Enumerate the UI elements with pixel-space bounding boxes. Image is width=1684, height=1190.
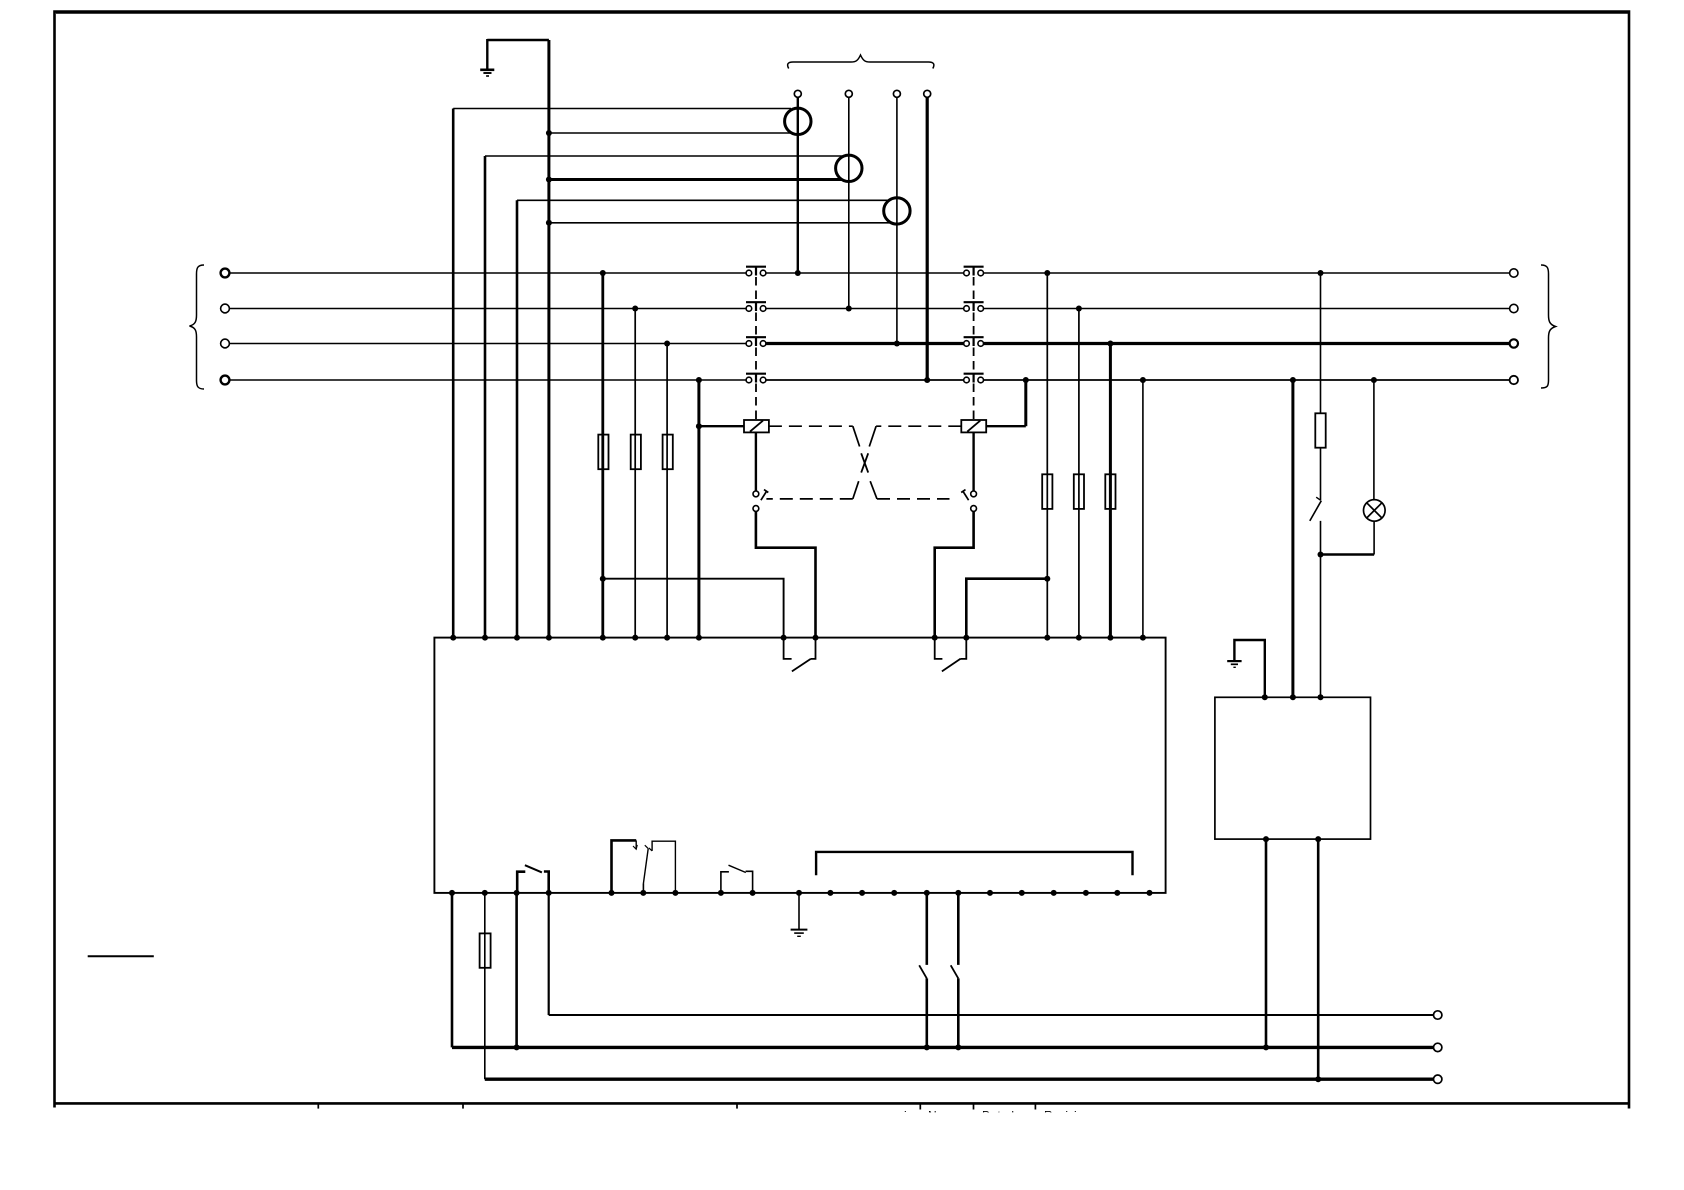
terminal: CT lead G-L3: [893, 90, 900, 97]
node: lamp return junction: [1318, 552, 1324, 558]
test link TB2 pole 4 bar: [964, 374, 984, 383]
test link TB1 pole 4 contacts: [746, 377, 766, 383]
wire: coil K1 to aux contact a: [755, 432, 757, 491]
brace: incoming supply group (left): [190, 265, 205, 389]
wire: controller pin to battery minus run: [451, 893, 454, 1048]
wire: CT3 primary drop to bus L3: [896, 97, 898, 343]
node: CT2 lower lead junction: [546, 177, 552, 183]
node: neutral on bus N: [924, 377, 930, 383]
node: fuse F6 tap on bus L3: [1107, 341, 1113, 347]
wire: CT3 lower lead horizontal y=222.8: [549, 222, 890, 224]
wire: starter contact lower lead x=926.8: [925, 978, 928, 1047]
fuse F6: [1105, 474, 1115, 509]
wire: CT1 upper lead horizontal y=108.5: [453, 108, 791, 110]
node: breaker-status branch junction (left): [600, 576, 606, 582]
battery charger unit U2: [1215, 697, 1371, 839]
wire: charger plus output drop: [1317, 839, 1320, 1079]
wire: charger minus output drop: [1265, 839, 1268, 1047]
terminal: sense output: [1434, 1011, 1442, 1019]
wire: coil K2 horizontal lead: [986, 425, 1026, 427]
wire: CT3 upper lead horizontal y=200.3: [517, 199, 890, 201]
node: coil K1 lead junction: [696, 423, 702, 429]
wire: pilot switch to charger input: [1320, 521, 1322, 697]
fuse F2: [631, 435, 641, 470]
terminal: load L3 (right): [1510, 339, 1518, 347]
contactor coil K1: [744, 420, 769, 432]
node: CT1 lower lead junction: [546, 130, 552, 136]
wire: starter contact upper lead x=926.8: [925, 893, 928, 965]
controller bottom pin nodes: [449, 890, 1153, 896]
terminal: supply N (left): [221, 376, 230, 385]
wire: bus L1 right segment: [984, 272, 1510, 274]
charger bottom pin nodes: [1263, 836, 1321, 842]
terminal: battery plus: [1434, 1075, 1442, 1083]
wire: F3 feeder vertical x=667.1: [666, 344, 668, 638]
node: coil K1 tap on bus N: [696, 377, 702, 383]
brace: generator CT group: [788, 55, 934, 69]
wire: F4 feeder vertical x=1047.3: [1046, 273, 1048, 638]
wire: lamp to return junction: [1373, 521, 1375, 554]
wire: bus L3 left segment: [230, 343, 747, 345]
test link TB2 pole 2 bar: [964, 302, 984, 311]
wire: aux contact b to controller (step): [935, 511, 974, 637]
node: lamp tap on bus N: [1371, 377, 1377, 383]
node: coil K2 tap on bus N: [1023, 377, 1029, 383]
wire: controller pin through fuse F8: [484, 893, 486, 1079]
current transformer CT1: [785, 108, 811, 134]
brace: outgoing load group (right): [1541, 265, 1556, 388]
node: fuse F2 tap on bus L2: [632, 306, 638, 312]
test link TB1 pole 1 bar: [746, 267, 766, 276]
test link TB1 pole 3 contacts: [746, 341, 766, 347]
test link TB1 pole 3 bar: [746, 337, 766, 346]
wire: aux contact a to controller (step): [756, 511, 816, 637]
test link TB2 pole 1 contacts: [964, 270, 984, 276]
changeover contact S2 (inside controller): [612, 840, 676, 893]
wire: battery plus run (y=1079.2): [485, 1077, 1434, 1080]
title block column ticks: [318, 1103, 1035, 1109]
wire: controller pin drop x=516.6: [515, 893, 518, 1048]
wire: bus L3 right segment: [984, 342, 1510, 345]
wire: neutral drop to bus N (bold): [926, 97, 929, 380]
terminal: battery minus: [1434, 1043, 1442, 1051]
terminal: load L1 (right): [1510, 269, 1518, 277]
wire: F1 feeder vertical x=602.8: [601, 273, 604, 638]
test link TB2 pole 1 bar: [964, 267, 984, 276]
node: charger feed tap on bus N: [1290, 377, 1296, 383]
wire: coil K1 horizontal lead: [699, 425, 744, 427]
node: CT1 primary on bus L1: [795, 270, 801, 276]
svg-text:Revision: Revision: [1044, 1109, 1090, 1123]
wire: pilot fuse to switch: [1320, 448, 1322, 501]
wire: controller pin to CT1 upper lead (vertical x=453): [452, 109, 455, 638]
breaker aux switch b (inside controller): [935, 638, 967, 672]
pilot switch S4: [1310, 497, 1322, 521]
current transformer CT2: [836, 155, 862, 181]
wire: coil K2 lead to bus N: [1024, 380, 1027, 426]
wire: bus N right segment: [984, 379, 1510, 381]
wire: battery minus run (y=1047.4): [452, 1046, 1433, 1049]
svg-text:Dated: Dated: [982, 1109, 1014, 1123]
node: charger plus on battery plus run: [1315, 1076, 1321, 1082]
pilot fuse F7: [1315, 413, 1325, 447]
ground symbol E2 (controller earth): [791, 893, 808, 936]
wire: branch to breaker aux switch a (left jog): [603, 579, 784, 638]
node: controller N tap on bus N: [1140, 377, 1146, 383]
wire: lamp return horizontal: [1321, 553, 1375, 556]
wire: bus N to coil K1 lead: [697, 380, 700, 638]
wire: bus N to charger input (bold x=1292.9): [1291, 380, 1294, 697]
node: drop x=516.6 onto battery minus run: [514, 1044, 520, 1050]
test link TB2 pole 2 contacts: [964, 306, 984, 312]
node: starter lead on battery minus run: [924, 1044, 930, 1050]
node: fuse F3 tap on bus L3: [664, 341, 670, 347]
svg-text:Name: Name: [928, 1109, 960, 1123]
title block clipped text: [904, 1109, 1090, 1123]
terminal: supply L2 (left): [221, 304, 230, 313]
indicator lamp H1: [1364, 500, 1386, 522]
ground symbol E1 (generator neutral earth): [480, 39, 549, 76]
test link TB1 pole 2 contacts: [746, 306, 766, 312]
wire: bus N to indicator lamp: [1373, 380, 1375, 500]
note line (signature rule): [88, 955, 154, 957]
charger top pin nodes: [1262, 694, 1324, 700]
fuse F4: [1042, 474, 1052, 509]
bracket: digital input terminal group: [816, 852, 1132, 875]
test link TB2 pole 3 bar: [964, 337, 984, 346]
node: second starter lead on battery minus run: [955, 1044, 961, 1050]
wire: controller pin to CT3 upper lead (vertical x=517): [516, 200, 519, 637]
wire: bus L2 middle segment: [766, 308, 963, 310]
start contact S1 (inside controller): [517, 865, 549, 893]
breaker aux switch a (inside controller): [784, 638, 816, 672]
test link TB1 pole 1 contacts: [746, 270, 766, 276]
controller top pin nodes: [450, 635, 1146, 641]
terminal: CT lead G-L1: [794, 90, 801, 97]
node: breaker-status branch junction (right): [1044, 576, 1050, 582]
wire: bus L1 left segment: [230, 272, 747, 274]
wire: controller pin to CT2 upper lead (vertical x=485): [484, 156, 487, 638]
test link TB2 pole 3 contacts: [964, 341, 984, 347]
aux contact b (interlock, NC): [961, 490, 976, 512]
wire: CT1 primary drop to bus L1: [797, 97, 799, 273]
terminal: CT lead G-L2: [845, 90, 852, 97]
interlock dashed line A (K1 to contact b): [769, 426, 950, 499]
ground symbol E3 (charger earth): [1227, 640, 1265, 697]
controller unit U1 (genset control box): [434, 638, 1165, 893]
wire: bus L2 right segment: [984, 308, 1510, 310]
node: CT3 primary on bus L3: [894, 341, 900, 347]
terminal: load L2 (right): [1510, 304, 1518, 312]
dashed linkage of test link TB1: [755, 277, 757, 420]
wire: F5 feeder vertical x=1078.9: [1078, 309, 1080, 638]
wire: sense run to terminal (y=1015): [549, 1014, 1434, 1016]
test link TB1 pole 4 bar: [746, 374, 766, 383]
wire: CT2 primary drop to bus L2: [848, 97, 850, 308]
current transformer CT3: [884, 198, 910, 224]
node: fuse F4 tap on bus L1: [1044, 270, 1050, 276]
node: charger minus on battery minus run: [1263, 1044, 1269, 1050]
wire: starter contact lower lead x=958.3: [957, 978, 960, 1047]
wire: bus L1 to pilot fuse: [1320, 273, 1322, 413]
node: CT3 lower lead junction: [546, 220, 552, 226]
wire: grounded CT common vertical x=549: [547, 40, 550, 638]
wire: bus N middle segment: [766, 379, 963, 381]
aux contact a (interlock, NC): [753, 490, 768, 512]
node: CT2 primary on bus L2: [846, 306, 852, 312]
contactor coil K2: [961, 420, 986, 432]
wire: bus N left segment: [230, 379, 747, 381]
fuse F5: [1074, 474, 1084, 509]
wire: bus L1 middle segment: [766, 272, 963, 274]
starter switch blade (left): [919, 965, 927, 978]
wire: CT2 upper lead horizontal y=156: [485, 155, 843, 157]
terminal: CT lead G-N: [924, 90, 931, 97]
wire: bus L2 left segment: [230, 308, 747, 310]
dashed linkage of test link TB2: [973, 277, 975, 420]
wire: CT1 lower lead horizontal y=133: [549, 132, 791, 134]
wire: bus L3 middle segment: [766, 342, 963, 345]
wire: controller pin drop x=548.7 to sense run: [548, 893, 550, 1015]
wire: F6 feeder vertical x=1110.4: [1109, 344, 1112, 638]
terminal: supply L1 (left): [221, 269, 230, 278]
test link TB2 pole 4 contacts: [964, 377, 984, 383]
terminal: load N (right): [1510, 376, 1518, 384]
fuse F3: [663, 435, 673, 470]
svg-text:is: is: [904, 1109, 913, 1123]
starter switch blade (right): [951, 965, 959, 978]
wire: branch to breaker aux switch b (right jog): [966, 579, 1047, 638]
node: fuse F1 tap on bus L1: [600, 270, 606, 276]
wire: controller N feed vertical x=1142.9: [1142, 380, 1144, 638]
wire: F2 feeder vertical x=635.2: [634, 309, 636, 638]
mechanical interlock cross symbol: [861, 453, 868, 472]
interlock dashed line B (K2 to contact a): [766, 426, 961, 499]
node: pilot fuse tap on bus L1: [1318, 270, 1324, 276]
fuse F1: [598, 435, 608, 470]
node: fuse F5 tap on bus L2: [1076, 306, 1082, 312]
wire: coil K2 to aux contact b: [972, 432, 974, 491]
test link TB1 pole 2 bar: [746, 302, 766, 311]
terminal: supply L3 (left): [221, 339, 230, 348]
stop contact S3 (inside controller): [721, 865, 753, 893]
wire: CT2 lower lead horizontal y=179.5 (bold): [549, 178, 843, 181]
wire: starter contact upper lead x=958.3: [957, 893, 960, 965]
fuse F8: [480, 933, 491, 967]
